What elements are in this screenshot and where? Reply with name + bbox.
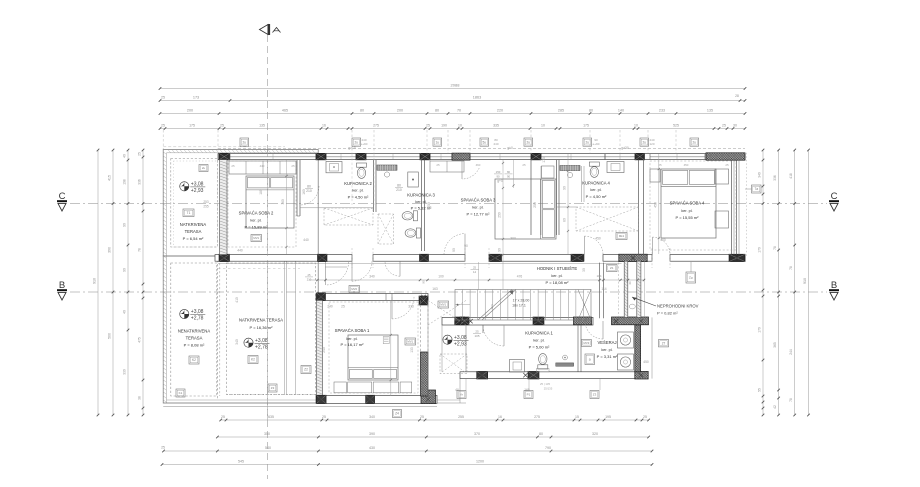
svg-text:244: 244 [789, 349, 793, 355]
svg-text:410: 410 [235, 297, 239, 303]
soba1 right wall crosshatch lower [421, 352, 429, 396]
top wall piers [219, 153, 230, 160]
svg-text:14: 14 [473, 270, 477, 274]
svg-text:2088: 2088 [451, 83, 461, 88]
svg-text:+3,08: +3,08 [191, 309, 204, 315]
svg-text:25: 25 [522, 163, 526, 167]
svg-text:200: 200 [397, 109, 403, 113]
svg-text:25: 25 [231, 164, 235, 168]
svg-text:2u: 2u [693, 140, 697, 144]
wall soba2/kupaonica2 [296, 160, 298, 216]
terrace top-left outer border [163, 150, 318, 257]
svg-text:NATKRIVENA TERASA: NATKRIVENA TERASA [239, 318, 283, 323]
dimension row top-1 total 2088 [160, 88, 745, 90]
svg-text:90: 90 [563, 186, 567, 190]
terrace top-left dashed inner [171, 159, 218, 248]
dimension col right-4 [808, 150, 810, 415]
middle band hatch block (above neprohodni krov) [619, 254, 647, 261]
wardrobe row soba2 [229, 161, 296, 174]
corridor dim line [309, 279, 644, 281]
kup1 bottom wall band [460, 372, 648, 379]
svg-text:ker. pl.: ker. pl. [346, 337, 357, 341]
svg-text:30: 30 [733, 124, 737, 128]
svg-text:25: 25 [473, 265, 477, 269]
soba1 inner dashed [329, 302, 418, 393]
hanging tag right corridor [690, 262, 692, 272]
svg-text:160: 160 [281, 199, 285, 205]
wall kup2/kup3 [373, 160, 375, 212]
svg-text:250: 250 [427, 202, 431, 208]
svg-text:Mk1: Mk1 [619, 234, 625, 238]
bed soba1 [348, 335, 398, 380]
svg-text:78: 78 [789, 398, 793, 402]
svg-text:TERASA: TERASA [186, 336, 203, 341]
svg-text:7a: 7a [754, 187, 758, 191]
svg-text:P = 12,77 m²: P = 12,77 m² [467, 212, 491, 217]
svg-text:105: 105 [474, 334, 479, 338]
door veseraj arc [585, 321, 603, 339]
svg-text:163: 163 [490, 304, 494, 309]
svg-text:163: 163 [432, 287, 438, 291]
svg-text:P = 15,55 m²: P = 15,55 m² [676, 215, 700, 220]
section C line [70, 203, 827, 205]
svg-text:ker. pl.: ker. pl. [533, 339, 544, 343]
svg-text:303: 303 [510, 237, 516, 241]
corridor dashed path lines [218, 268, 300, 270]
svg-text:55: 55 [758, 388, 762, 392]
svg-text:P = 6,54 m²: P = 6,54 m² [183, 236, 204, 241]
kup1 left wall [482, 325, 484, 333]
svg-text:390: 390 [108, 247, 112, 253]
svg-text:78: 78 [773, 246, 777, 250]
svg-text:135: 135 [707, 109, 713, 113]
svg-text:Z1: Z1 [610, 266, 614, 270]
svg-text:635: 635 [268, 415, 274, 419]
svg-text:P = 4,50 m²: P = 4,50 m² [348, 195, 369, 200]
svg-text:30: 30 [628, 281, 632, 285]
svg-text:25: 25 [341, 305, 345, 309]
svg-text:90: 90 [452, 248, 456, 252]
svg-text:500: 500 [108, 333, 112, 339]
nightstand soba4 left [650, 169, 660, 182]
svg-text:P = 0,82 m²: P = 0,82 m² [657, 311, 678, 316]
svg-text:330: 330 [123, 369, 127, 375]
svg-text:10: 10 [634, 124, 638, 128]
svg-text:Z2: Z2 [304, 368, 308, 372]
bed soba3 [495, 179, 556, 239]
svg-text:K2: K2 [251, 358, 255, 362]
svg-text:400: 400 [660, 238, 666, 242]
svg-text:135: 135 [259, 124, 265, 128]
svg-text:255: 255 [458, 415, 464, 419]
svg-text:415: 415 [108, 175, 112, 181]
level top-left terrace [180, 182, 189, 191]
svg-text:450: 450 [643, 360, 649, 364]
void x-dash left of kup1 [440, 354, 467, 374]
svg-text:SPAVAĆA SOBA 4: SPAVAĆA SOBA 4 [670, 201, 705, 206]
node center-axis [267, 35, 269, 479]
svg-text:140: 140 [618, 109, 624, 113]
vertical dim chain soba3 [502, 160, 504, 289]
svg-text:790: 790 [545, 446, 551, 450]
svg-text:25: 25 [322, 415, 326, 419]
terrace lower dashed inner [171, 263, 217, 396]
svg-text:475: 475 [138, 337, 142, 343]
svg-text:70: 70 [457, 109, 461, 113]
svg-text:Z3: Z3 [271, 386, 275, 390]
terrace border hatch ticks [163, 152, 166, 154]
svg-text:ker. pl.: ker. pl. [352, 189, 363, 193]
radiator soba1 [383, 337, 389, 344]
svg-text:P = 15,89 m²: P = 15,89 m² [245, 225, 269, 230]
svg-text:220: 220 [497, 109, 503, 113]
svg-text:250: 250 [498, 212, 502, 218]
svg-text:2u: 2u [586, 140, 590, 144]
svg-text:42: 42 [773, 405, 777, 409]
dimension col right-1 [762, 150, 764, 415]
svg-text:SPAVAĆA SOBA 3: SPAVAĆA SOBA 3 [461, 198, 496, 203]
svg-text:P = 16,17 m²: P = 16,17 m² [341, 342, 365, 347]
svg-text:g+10: g+10 [348, 146, 356, 150]
door arc soba3 top closet [462, 168, 479, 179]
svg-text:+3,08: +3,08 [454, 335, 467, 341]
corridor upper line [218, 263, 622, 265]
svg-text:+2,78: +2,78 [255, 344, 268, 350]
shower kup4 [576, 207, 639, 231]
top exterior wall band outline [218, 154, 745, 160]
svg-text:P = 18,08 m²: P = 18,08 m² [546, 280, 570, 285]
svg-text:80: 80 [539, 432, 543, 436]
svg-text:350: 350 [264, 432, 270, 436]
dimension col left-3 [127, 150, 129, 415]
svg-text:78: 78 [138, 248, 142, 252]
svg-text:MV1: MV1 [253, 236, 259, 240]
soba1 left wall hatched [317, 300, 323, 395]
door soba4 arc [653, 237, 671, 255]
svg-text:ker. pl.: ker. pl. [551, 274, 562, 278]
krov strip lines right [644, 261, 646, 317]
svg-text:25/135: 25/135 [544, 387, 553, 391]
vertical dim guides from top rows [351, 130, 353, 154]
svg-text:240: 240 [322, 347, 326, 353]
svg-text:2u: 2u [527, 140, 531, 144]
svg-text:525: 525 [673, 124, 679, 128]
door soba1 arc [392, 297, 414, 319]
svg-text:80: 80 [435, 109, 439, 113]
svg-text:200: 200 [187, 109, 193, 113]
sink kupaonica4 [607, 162, 624, 173]
svg-text:910: 910 [93, 278, 97, 284]
svg-text:240: 240 [327, 305, 333, 309]
terrace lower-left outer border [163, 256, 318, 403]
vertical dim chain soba4 [658, 154, 660, 254]
door soba3 arc [444, 234, 465, 255]
wall terrace/soba2 hatched [220, 160, 228, 255]
bidet kup3 [405, 228, 420, 238]
center axis inside plan [267, 150, 269, 420]
svg-text:a: a [589, 357, 591, 361]
svg-text:440: 440 [237, 249, 243, 253]
svg-text:120: 120 [649, 142, 654, 146]
svg-text:25: 25 [138, 152, 142, 156]
svg-text:40: 40 [123, 154, 127, 158]
svg-text:114: 114 [601, 287, 606, 291]
door kup3 arc [385, 261, 400, 276]
svg-text:VEŠERAJ: VEŠERAJ [597, 340, 616, 345]
bed soba4 [661, 169, 716, 238]
svg-text:g+0: g+0 [497, 179, 503, 183]
door kup4 arc [585, 236, 604, 255]
view marker [260, 25, 269, 35]
svg-text:175: 175 [189, 124, 195, 128]
svg-text:5u: 5u [483, 140, 487, 144]
svg-text:340: 340 [369, 415, 375, 419]
svg-text:250: 250 [533, 202, 537, 208]
svg-text:365: 365 [773, 342, 777, 348]
middle band piers [219, 254, 230, 261]
svg-text:275: 275 [373, 124, 379, 128]
door gap mid-1 arc (kup area) [352, 261, 372, 281]
svg-text:+2,78: +2,78 [191, 316, 204, 322]
svg-text:T1: T1 [187, 211, 191, 215]
svg-text:e+90: e+90 [361, 142, 368, 146]
svg-text:+2,93: +2,93 [191, 188, 204, 194]
svg-text:25: 25 [725, 163, 729, 167]
svg-text:P = 8,08 m²: P = 8,08 m² [184, 343, 205, 348]
tag 7a [752, 185, 762, 193]
svg-text:+2,93: +2,93 [454, 341, 467, 347]
svg-text:150: 150 [496, 170, 501, 174]
dimension row bottom-2 [217, 436, 648, 438]
svg-text:160: 160 [302, 189, 306, 195]
vertical dim chain soba2 [286, 160, 288, 254]
level hodnik lower [443, 335, 452, 344]
bench row soba1 [334, 382, 346, 393]
svg-text:90: 90 [422, 280, 426, 284]
svg-text:25: 25 [161, 124, 165, 128]
terrace hatch bottom edge [227, 394, 317, 396]
hatch pier kup1/veseraj [574, 317, 592, 325]
svg-text:NATKRIVENA: NATKRIVENA [180, 222, 207, 227]
svg-text:190: 190 [441, 124, 447, 128]
svg-text:25: 25 [643, 415, 647, 419]
dryer veseraj [618, 354, 634, 370]
dimension row top-4 [160, 128, 745, 130]
wc kupaonica1 [538, 354, 548, 369]
svg-text:MV1: MV1 [407, 340, 413, 344]
svg-text:80: 80 [360, 109, 364, 113]
svg-text:80: 80 [397, 183, 401, 187]
svg-text:210: 210 [306, 189, 312, 193]
svg-text:16: 16 [498, 415, 502, 419]
svg-text:25: 25 [722, 124, 726, 128]
svg-text:285: 285 [558, 109, 564, 113]
svg-text:430: 430 [369, 446, 375, 450]
door soba2-kup2 arc [300, 186, 319, 205]
wall kup4 partitions [556, 160, 558, 235]
dimension row top-2 [160, 100, 745, 102]
svg-text:1u: 1u [436, 140, 440, 144]
window mullion marks [272, 154, 274, 159]
svg-text:175: 175 [583, 124, 589, 128]
svg-text:P = 4,50 m²: P = 4,50 m² [586, 194, 607, 199]
stairs right wall [599, 263, 601, 319]
svg-text:78: 78 [789, 266, 793, 270]
bed soba2 [246, 176, 294, 228]
svg-text:340: 340 [758, 172, 762, 178]
dimension row bottom-3 [164, 450, 653, 452]
corner hatch block soba1 [421, 390, 436, 404]
svg-text:210: 210 [396, 188, 402, 192]
svg-text:10: 10 [541, 124, 545, 128]
shower kup3 [378, 214, 394, 244]
svg-text:25: 25 [308, 273, 311, 277]
soba2 inner dashed [228, 161, 296, 247]
svg-text:+3,08: +3,08 [255, 338, 268, 344]
vertical dim chain kup4 [567, 154, 569, 254]
tag 2u terrace [199, 165, 208, 172]
svg-text:KUPAONICA 4: KUPAONICA 4 [582, 181, 610, 186]
svg-text:340: 340 [369, 274, 375, 278]
kup1/veseraj partition [577, 325, 579, 372]
svg-text:2u: 2u [202, 166, 206, 170]
wardrobe soba3 [430, 161, 464, 172]
svg-text:Z3: Z3 [593, 393, 597, 397]
small tag boxes bottom [457, 391, 466, 399]
krov drain [629, 304, 635, 309]
svg-text:KUPAONICA 2: KUPAONICA 2 [344, 181, 372, 186]
right wall soba4 [731, 160, 733, 254]
sink kupaonica1 [510, 360, 525, 373]
svg-text:25: 25 [291, 164, 295, 168]
svg-text:2u: 2u [355, 140, 359, 144]
veseraj right wall crosshatch [635, 325, 641, 372]
middle wall band segments [215, 255, 352, 262]
door kup1 arc [483, 325, 504, 346]
svg-text:17 x 28,00: 17 x 28,00 [513, 299, 530, 303]
svg-text:P = 16,36 m²: P = 16,36 m² [250, 325, 274, 330]
svg-text:KUPAONICA 1: KUPAONICA 1 [525, 331, 553, 336]
dimension row top-3 [160, 113, 745, 115]
wc kupaonica2 [357, 163, 367, 178]
svg-text:545: 545 [238, 460, 244, 464]
svg-text:25: 25 [221, 415, 225, 419]
svg-text:80: 80 [563, 218, 567, 222]
dimension col left-1 [97, 150, 99, 415]
svg-text:10: 10 [458, 124, 462, 128]
svg-text:TERASA: TERASA [185, 229, 202, 234]
svg-text:275: 275 [534, 415, 540, 419]
bottom right hatch corner [635, 371, 648, 379]
svg-text:K2: K2 [192, 358, 196, 362]
svg-text:38: 38 [138, 396, 142, 400]
svg-text:440: 440 [260, 164, 265, 168]
svg-text:114: 114 [597, 274, 602, 278]
svg-text:25: 25 [420, 415, 424, 419]
towel radiator kup3 [377, 165, 397, 170]
svg-text:15: 15 [575, 415, 579, 419]
svg-text:255: 255 [203, 205, 209, 209]
veseraj top hatch block [612, 317, 649, 325]
svg-text:25: 25 [161, 446, 165, 450]
svg-text:80: 80 [589, 109, 593, 113]
svg-text:27: 27 [662, 341, 666, 345]
svg-text:ker. pl.: ker. pl. [590, 188, 601, 192]
step lines corridor-lower [427, 300, 429, 396]
svg-text:340: 340 [235, 339, 239, 345]
door jamb dashes [351, 248, 353, 268]
dimension row bottom-1 [221, 419, 649, 421]
wc kupaonica4 [589, 162, 599, 177]
svg-text:390: 390 [369, 432, 375, 436]
svg-text:2u: 2u [243, 140, 247, 144]
threshold hatch kup1/veseraj [556, 363, 574, 366]
svg-text:90: 90 [496, 175, 500, 179]
svg-text:80: 80 [307, 184, 311, 188]
svg-text:210: 210 [307, 278, 312, 282]
svg-text:540: 540 [265, 446, 271, 450]
svg-text:476: 476 [517, 275, 523, 279]
soba1 top wall band [316, 294, 428, 301]
svg-text:25: 25 [436, 163, 440, 167]
svg-text:320: 320 [592, 432, 598, 436]
svg-text:MV2: MV2 [351, 287, 357, 291]
kup1 top wall band [442, 317, 593, 325]
stubs below kup1 wall [465, 379, 467, 390]
window tags row [240, 138, 249, 146]
soba1 bottom wall band [316, 395, 437, 403]
svg-text:173: 173 [193, 96, 199, 100]
svg-text:90: 90 [507, 175, 511, 179]
svg-text:1200: 1200 [476, 460, 484, 464]
top wall window frames [230, 156, 316, 158]
door soba2 arc [326, 262, 349, 285]
svg-text:450: 450 [595, 237, 601, 241]
svg-text:90: 90 [123, 268, 127, 272]
svg-text:240: 240 [493, 142, 498, 146]
svg-text:198: 198 [123, 179, 127, 185]
svg-text:370: 370 [474, 432, 480, 436]
svg-text:Z4: Z4 [395, 412, 399, 416]
svg-text:418: 418 [789, 173, 793, 179]
svg-text:ker. pl.: ker. pl. [681, 209, 692, 213]
svg-text:ker. pl.: ker. pl. [250, 219, 261, 223]
svg-text:1863: 1863 [473, 96, 481, 100]
svg-text:25: 25 [220, 124, 224, 128]
wall soba3/kup4 [530, 160, 532, 235]
krov dashed verticals [618, 263, 620, 317]
svg-text:30: 30 [582, 268, 586, 272]
dashed guides into rooms [351, 154, 353, 205]
svg-text:+3,08: +3,08 [191, 182, 204, 188]
svg-text:910: 910 [803, 278, 807, 284]
svg-text:90: 90 [498, 248, 502, 252]
svg-text:80: 80 [507, 170, 511, 174]
svg-text:28: 28 [735, 94, 739, 98]
svg-text:253: 253 [203, 200, 209, 204]
svg-text:ker. pl.: ker. pl. [415, 200, 426, 204]
svg-text:175: 175 [542, 157, 546, 163]
svg-text:25 | 135: 25 | 135 [540, 382, 551, 386]
drain kup1 [563, 355, 568, 360]
towel radiator kup4 [560, 166, 580, 171]
dim chain soba1 [390, 300, 392, 396]
svg-text:NENATKRIVENA: NENATKRIVENA [178, 329, 210, 334]
wall kup4/soba4 [638, 160, 640, 255]
soba4 inner dashed [650, 161, 736, 250]
svg-text:SPAVAĆA SOBA 2: SPAVAĆA SOBA 2 [239, 211, 274, 216]
sink kupaonica2 [326, 162, 342, 173]
